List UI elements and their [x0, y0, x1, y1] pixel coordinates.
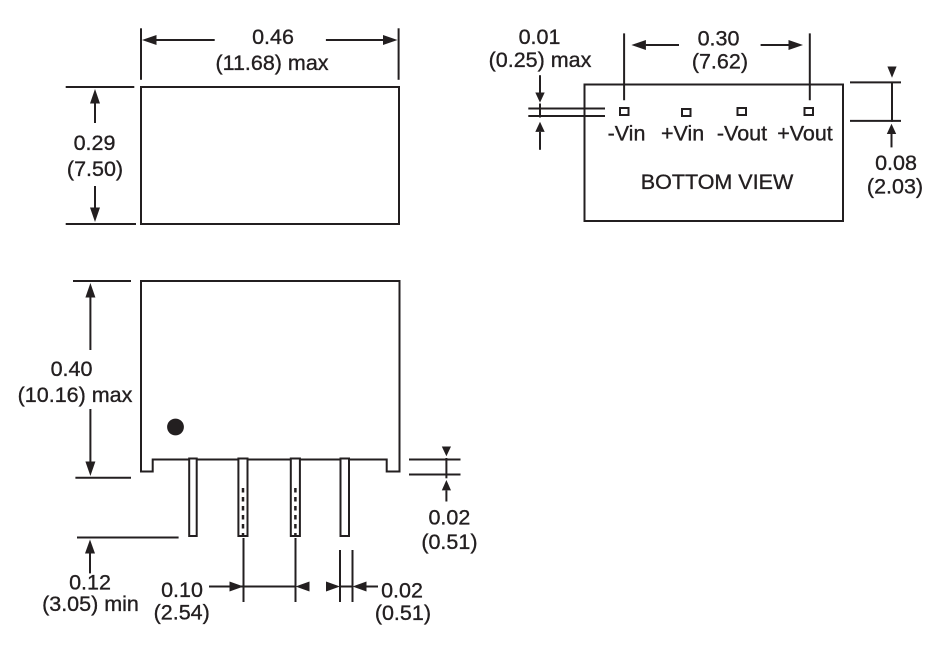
dimension 0.30 extension line at pin 1	[623, 33, 625, 100]
svg-text:0.02: 0.02	[381, 578, 423, 602]
svg-text:0.40: 0.40	[51, 357, 93, 381]
svg-text:0.01: 0.01	[519, 25, 561, 49]
dimension 0.12 arrow up	[85, 540, 95, 574]
dimension 0.01 arrow up	[535, 122, 544, 150]
svg-text:BOTTOM VIEW: BOTTOM VIEW	[641, 170, 794, 194]
dimension 0.12 extension line	[77, 537, 179, 539]
dimension 0.08 arrow up below	[887, 124, 896, 148]
bottom view: package body outline (top-right)	[585, 85, 844, 222]
svg-text:0.12: 0.12	[69, 571, 111, 595]
dimension 0.08 extension line bottom	[850, 120, 901, 122]
dimension 0.10 arrow left at pin3 centerline	[296, 582, 310, 592]
pin 3 pad	[738, 108, 747, 115]
dimension 0.40 arrow down	[85, 409, 95, 476]
dimension 0.46 extension line right	[398, 28, 400, 80]
top view: package body outline (top-left)	[141, 87, 399, 224]
dimension 0.02 lead width extension line left	[339, 550, 341, 602]
svg-text:(10.16) max: (10.16) max	[18, 383, 133, 407]
svg-text:(2.54): (2.54)	[154, 601, 210, 625]
svg-text:0.02: 0.02	[428, 506, 470, 530]
pin 2 pad	[682, 109, 691, 116]
svg-text:(11.68) max: (11.68) max	[215, 51, 328, 75]
svg-text:(0.25) max: (0.25) max	[489, 48, 592, 72]
svg-text:0.08: 0.08	[875, 151, 917, 175]
pin 2 centerline	[243, 538, 245, 602]
dimension 0.40 extension line top	[73, 280, 131, 282]
pin 4 pad	[805, 108, 814, 115]
dimension 0.02 lead width arrow pointing right	[326, 582, 340, 592]
dimension 0.40 extension line bottom	[75, 477, 131, 479]
pin 3 lead	[291, 459, 300, 537]
dimension 0.02 standoff filled triangle above	[442, 447, 451, 457]
dimension 0.08 extension line top	[850, 81, 901, 83]
dimension 0.30 extension line at pin 4	[809, 33, 811, 100]
dimension 0.01 arrow down	[535, 75, 544, 102]
dimension 0.10 arrow right at pin2 centerline	[230, 582, 244, 592]
pin 2 lead	[238, 459, 247, 537]
side view: package body outline with standoff feet (bottom-left)	[141, 281, 400, 472]
dimension 0.02 lead width connector	[340, 586, 353, 588]
pin profile double line (left of bottom view)	[528, 108, 605, 110]
svg-text:(3.05) min: (3.05) min	[42, 592, 139, 616]
dimension 0.02 lead width extension line right	[352, 550, 354, 602]
dimension 0.30 arrow right	[761, 40, 803, 50]
svg-text:0.10: 0.10	[161, 578, 203, 602]
svg-text:+Vout: +Vout	[777, 122, 833, 146]
pin 1 lead	[189, 459, 197, 537]
dimension 0.02 standoff dimension line	[445, 458, 447, 478]
svg-text:+Vin: +Vin	[661, 122, 704, 146]
svg-text:(7.50): (7.50)	[67, 157, 123, 181]
dimension 0.46 extension line left	[140, 28, 142, 80]
svg-text:(0.51): (0.51)	[375, 601, 431, 625]
dimension 0.02 lead width arrow pointing left with leader	[353, 582, 379, 592]
dimension 0.08 filled triangle above	[887, 67, 896, 78]
svg-text:-Vin: -Vin	[608, 122, 646, 146]
dimension 0.29 extension line top	[66, 86, 135, 88]
pin 1 index dot	[167, 419, 184, 436]
pin 3 centerline	[295, 538, 297, 602]
svg-text:0.29: 0.29	[74, 131, 116, 155]
dimension 0.29 arrow down	[90, 186, 100, 222]
dimension 0.46 arrow right	[326, 35, 398, 45]
svg-text:(7.62): (7.62)	[692, 50, 748, 74]
dimension 0.01 tick through pin profile	[539, 104, 541, 118]
dimension 0.02 standoff extension line top (right of side view)	[409, 459, 461, 461]
svg-text:(0.51): (0.51)	[421, 530, 477, 554]
pin 1 pad	[620, 108, 629, 115]
svg-text:0.46: 0.46	[252, 25, 294, 49]
svg-text:-Vout: -Vout	[717, 122, 767, 146]
pin 4 lead	[341, 459, 350, 537]
dimension 0.30 arrow left	[631, 40, 679, 50]
pin 2 hidden dashed line	[242, 488, 245, 536]
dimension 0.02 standoff extension line bottom	[409, 474, 461, 476]
dimension 0.40 arrow up	[85, 283, 95, 350]
svg-text:0.30: 0.30	[698, 27, 740, 51]
dimension 0.02 standoff arrow up	[442, 480, 451, 502]
dimension 0.10 dimension line	[209, 586, 296, 588]
pin 3 hidden dashed line	[294, 488, 297, 536]
dimension 0.46 arrow left	[142, 35, 215, 45]
dimension 0.29 extension line bottom	[66, 223, 136, 225]
dimension 0.29 arrow up	[90, 89, 100, 123]
svg-text:(2.03): (2.03)	[867, 174, 923, 198]
dimension 0.08 dimension line	[891, 82, 893, 122]
